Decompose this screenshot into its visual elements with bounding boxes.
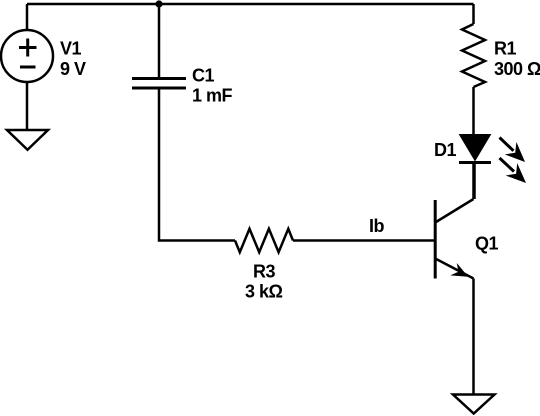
ground (below Q1 emitter): [453, 395, 495, 414]
Q1 emitter arrowhead: [450, 263, 468, 277]
svg-text:R3: R3: [253, 262, 275, 282]
svg-text:3 kΩ: 3 kΩ: [245, 282, 283, 302]
wire V1 bottom lead: [26, 82, 29, 130]
LED light arrow 2: [500, 158, 527, 183]
wire R1 top lead: [472, 4, 475, 24]
svg-text:R1: R1: [494, 39, 516, 59]
wire top rail: [27, 3, 474, 6]
svg-text:1 mF: 1 mF: [192, 86, 233, 106]
LED light arrow 1: [500, 138, 526, 163]
resistor R3: [235, 229, 293, 252]
voltage source V1: [1, 30, 53, 82]
wire C1 branch top: [158, 4, 161, 78]
wire V1 top lead: [26, 4, 29, 30]
wire D1 cathode to Q1 collector: [473, 163, 476, 200]
svg-text:V1: V1: [60, 39, 82, 59]
wire C1 bottom to base rail: [159, 88, 235, 241]
svg-text:9 V: 9 V: [60, 59, 86, 79]
node junction dot: [155, 0, 162, 7]
ground (below V1): [7, 130, 48, 150]
wire Q1 collector up to LED: [472, 163, 475, 199]
LED D1: [459, 135, 491, 163]
svg-text:Q1: Q1: [475, 234, 499, 254]
wire Q1 emitter down: [472, 279, 475, 395]
svg-text:C1: C1: [192, 66, 214, 86]
svg-text:D1: D1: [434, 140, 456, 160]
wire base rail to Q1: [293, 239, 434, 242]
svg-text:Ib: Ib: [369, 216, 385, 236]
resistor R1: [462, 24, 485, 87]
transistor Q1: [435, 199, 473, 279]
wire R1 to D1: [472, 87, 475, 136]
svg-text:300 Ω: 300 Ω: [494, 59, 540, 79]
capacitor C1: [132, 79, 186, 89]
